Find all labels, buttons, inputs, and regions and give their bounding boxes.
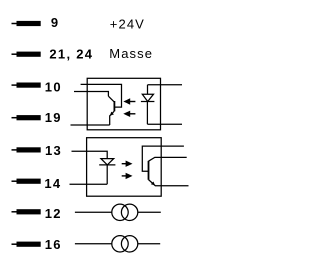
wire pin12 to transformer T1 (75, 211, 112, 213)
U1 phototransistor collector diagonal (108, 96, 114, 102)
transformer T1 winding circle right (121, 204, 137, 220)
wire U1 LED anode output right (148, 84, 183, 86)
transformer T2 winding circle right (121, 236, 137, 252)
optocoupler U1 box (87, 78, 160, 130)
wire T1 right (138, 211, 161, 213)
U2 LED D2 cathode lead (106, 165, 108, 184)
terminal pin 19 (12, 115, 41, 120)
svg-text:14: 14 (44, 176, 61, 191)
U1 base lead routed stub (81, 84, 122, 107)
svg-text:21, 24: 21, 24 (49, 46, 93, 61)
U2 LED D2 triangle (101, 159, 114, 165)
terminal pin 16 (12, 242, 41, 247)
svg-text:10: 10 (45, 80, 62, 95)
svg-text:16: 16 (45, 237, 62, 252)
U1 LED D1 cathode lead (146, 102, 148, 125)
U1 LED D1 cathode bar (141, 101, 155, 103)
svg-text:+24V: +24V (110, 16, 145, 31)
U1 light arrow lower (pointing left) (123, 111, 135, 117)
svg-text:19: 19 (45, 110, 62, 125)
U2 LED D2 cathode bar (99, 164, 115, 166)
wire pin13 to U2 LED anode (72, 151, 108, 158)
U2 phototransistor base bar (148, 161, 150, 180)
U2 light arrow lower (pointing right) (122, 173, 133, 179)
terminal pin 12 (12, 209, 41, 214)
U1 light arrow upper (pointing left) (123, 98, 135, 104)
terminal pin 21,24 (12, 52, 41, 57)
wire pin14 to U2 LED cathode (70, 183, 108, 185)
wire T2 right (138, 243, 160, 245)
U2 phototransistor collector to output (149, 157, 187, 161)
svg-text:9: 9 (51, 15, 60, 30)
transformer T2 winding circle left (112, 236, 128, 252)
wire pin16 to transformer T2 (75, 243, 112, 245)
svg-text:Masse: Masse (109, 46, 153, 61)
svg-text:13: 13 (45, 143, 62, 158)
terminal pin 14 (12, 179, 41, 184)
wire pin19 to U1 emitter (71, 124, 110, 126)
wire U1 LED cathode output right (147, 123, 182, 125)
transformer T1 winding circle left (112, 204, 128, 220)
svg-text:12: 12 (45, 206, 62, 221)
U2 phototransistor emitter with arrow to output (149, 180, 189, 186)
terminal pin 9 (12, 21, 41, 26)
U1 LED D1 anode lead (147, 85, 149, 94)
terminal pin 10 (12, 83, 41, 88)
U1 phototransistor emitter with arrow (110, 111, 115, 125)
optocoupler U2 box (87, 138, 162, 197)
U2 base lead routed to output (142, 146, 184, 171)
terminal pin 13 (12, 147, 41, 152)
U2 light arrow upper (pointing right) (122, 161, 133, 167)
wire pin10 to U1 phototransistor collector (74, 92, 108, 97)
U1 phototransistor base bar (113, 101, 115, 111)
U1 LED D1 triangle (142, 94, 153, 101)
